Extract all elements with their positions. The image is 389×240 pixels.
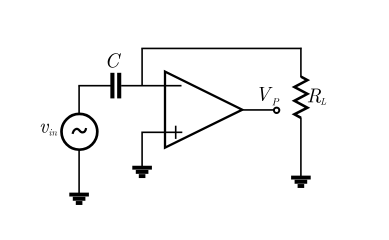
wire: main horizontal right of capacitor into op-amp minus input xyxy=(121,85,181,87)
resistor R_L (zigzag) xyxy=(294,77,307,118)
wire: plus input horizontal (plus sign horizontal bar) xyxy=(142,131,182,133)
wire: resistor to ground xyxy=(300,117,302,177)
ground (under R_L) xyxy=(291,178,311,186)
wire: plus input down to ground xyxy=(141,132,143,167)
ground (under op-amp plus input) xyxy=(132,168,152,176)
capacitor C (plates) xyxy=(112,73,119,99)
label v_in xyxy=(41,124,57,136)
source v_in (circle) xyxy=(62,114,98,150)
wire: op-amp output xyxy=(242,109,274,111)
wire: feedback vertical xyxy=(141,48,143,85)
label R_L xyxy=(308,89,326,105)
ground (under source) xyxy=(69,195,89,203)
source sine tilde xyxy=(73,128,87,134)
label V_P xyxy=(259,87,279,105)
op-amp plus marker vertical bar xyxy=(175,126,177,139)
label C xyxy=(108,53,121,68)
wire: right vertical to resistor xyxy=(300,48,302,77)
wire: main horizontal left of capacitor xyxy=(78,85,110,87)
wire: top horizontal xyxy=(141,47,301,49)
wire: source top vertical xyxy=(78,86,80,113)
op-amp U1 xyxy=(165,72,242,148)
wire: source bottom to ground xyxy=(78,151,80,194)
output terminal V_p (open circle) xyxy=(274,108,279,113)
